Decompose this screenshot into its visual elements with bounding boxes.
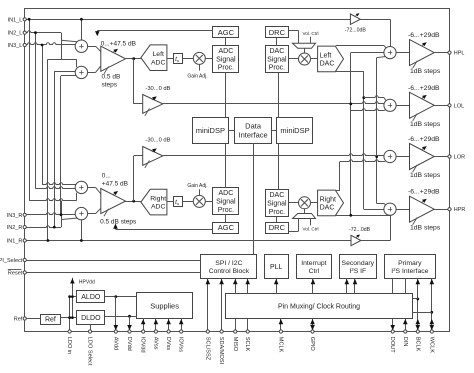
svg-text:Vol. Ctrl: Vol. Ctrl [302, 227, 318, 232]
svg-text:Left: Left [153, 51, 164, 58]
svg-text:SPI_Select: SPI_Select [0, 258, 23, 264]
svg-text:Data: Data [245, 122, 262, 131]
svg-text:SCL/SSZ: SCL/SSZ [204, 337, 210, 361]
svg-text:IN3_L: IN3_L [8, 43, 23, 49]
svg-text:LDO Select: LDO Select [87, 337, 93, 366]
svg-text:Interrupt: Interrupt [301, 260, 326, 267]
svg-text:DLDO: DLDO [81, 315, 101, 322]
svg-text:DAC: DAC [320, 60, 335, 67]
svg-text:Primary: Primary [398, 260, 422, 267]
svg-text:Ctrl: Ctrl [309, 268, 320, 275]
svg-text:Left: Left [320, 52, 332, 59]
svg-text:1dB steps: 1dB steps [410, 121, 441, 128]
svg-text:Proc.: Proc. [269, 65, 285, 72]
svg-text:+47.5 dB: +47.5 dB [102, 180, 128, 187]
svg-text:PLL: PLL [270, 264, 283, 271]
svg-text:HPL: HPL [454, 51, 465, 57]
svg-text:-30...0 dB: -30...0 dB [145, 138, 170, 144]
svg-text:DRC: DRC [269, 28, 286, 37]
svg-text:-6...+29dB: -6...+29dB [408, 32, 440, 39]
svg-text:Control Block: Control Block [209, 268, 250, 275]
svg-text:-72...0dB: -72...0dB [349, 227, 371, 233]
svg-text:ADC: ADC [151, 59, 165, 66]
svg-text:SPI / I2C: SPI / I2C [215, 260, 242, 267]
svg-text:AGC: AGC [218, 223, 235, 232]
svg-text:Right: Right [320, 196, 336, 203]
svg-text:tu: tu [175, 199, 179, 206]
svg-text:LOL: LOL [454, 103, 464, 109]
svg-text:IN2_L: IN2_L [8, 31, 23, 37]
svg-text:SCLK: SCLK [244, 337, 250, 352]
svg-text:Reset: Reset [8, 271, 23, 277]
svg-text:Interface: Interface [239, 130, 268, 139]
svg-text:steps: steps [102, 82, 118, 89]
svg-text:Pin Muxing/ Clock Routing: Pin Muxing/ Clock Routing [278, 303, 360, 310]
svg-text:Secondary: Secondary [342, 260, 375, 267]
svg-text:AVss: AVss [152, 337, 158, 350]
svg-text:AGC: AGC [218, 28, 235, 37]
svg-text:Signal: Signal [267, 56, 287, 63]
svg-text:Signal: Signal [267, 201, 287, 208]
svg-text:IOVdd: IOVdd [140, 337, 146, 353]
svg-text:IN3_R: IN3_R [7, 213, 23, 219]
svg-text:0...+47.5 dB: 0...+47.5 dB [101, 41, 136, 48]
svg-text:LOR: LOR [454, 155, 465, 161]
svg-text:HPVdd: HPVdd [79, 280, 95, 286]
svg-text:MCLK: MCLK [277, 337, 283, 353]
svg-text:IN1_R: IN1_R [7, 239, 23, 245]
svg-text:HPR: HPR [454, 207, 466, 213]
svg-text:0.5 dB steps: 0.5 dB steps [100, 219, 137, 226]
svg-text:DAC: DAC [270, 192, 285, 199]
svg-text:Signal: Signal [216, 56, 236, 63]
svg-text:DVdd: DVdd [126, 337, 132, 351]
svg-text:-6...+29dB: -6...+29dB [408, 136, 440, 143]
svg-text:Proc.: Proc. [269, 209, 285, 216]
svg-text:miniDSP: miniDSP [280, 126, 309, 135]
svg-text:tu: tu [175, 56, 179, 63]
svg-text:0...: 0... [102, 173, 111, 180]
svg-text:SDA/MOSI: SDA/MOSI [218, 337, 224, 365]
svg-text:ADC: ADC [219, 190, 234, 197]
svg-text:1dB steps: 1dB steps [410, 225, 441, 232]
svg-text:IOVss: IOVss [178, 337, 184, 352]
svg-text:GPIO: GPIO [309, 337, 315, 352]
svg-text:0.5 dB: 0.5 dB [102, 74, 121, 81]
svg-text:BCLK: BCLK [414, 337, 420, 352]
svg-text:I2S Interface: I2S Interface [391, 267, 428, 275]
svg-text:Signal: Signal [216, 199, 236, 206]
svg-text:IN1_L: IN1_L [8, 17, 23, 23]
svg-text:1dB steps: 1dB steps [410, 68, 441, 75]
svg-text:DOUT: DOUT [389, 337, 395, 353]
svg-text:-72...0dB: -72...0dB [345, 28, 367, 34]
svg-text:1dB steps: 1dB steps [410, 172, 441, 179]
svg-text:Ref: Ref [45, 317, 56, 324]
svg-text:DVss: DVss [165, 337, 171, 351]
svg-text:IN2_R: IN2_R [7, 225, 23, 231]
svg-text:Vol. Ctrl: Vol. Ctrl [302, 31, 318, 36]
svg-text:ADC: ADC [219, 48, 234, 55]
svg-text:WCLK: WCLK [428, 337, 434, 353]
svg-text:LDO in: LDO in [66, 337, 72, 354]
svg-text:ALDO: ALDO [81, 294, 101, 301]
svg-text:ADC: ADC [151, 204, 165, 211]
svg-text:Proc.: Proc. [218, 65, 234, 72]
svg-text:Gain Adj.: Gain Adj. [187, 183, 207, 189]
svg-text:-6...+29dB: -6...+29dB [408, 189, 440, 196]
svg-text:DRC: DRC [269, 223, 286, 232]
svg-text:Proc.: Proc. [218, 207, 234, 214]
svg-text:DAC: DAC [320, 204, 335, 211]
svg-text:MISO: MISO [232, 337, 238, 352]
svg-text:miniDSP: miniDSP [196, 126, 225, 135]
svg-text:-30...0 dB: -30...0 dB [145, 86, 170, 92]
svg-text:Supplies: Supplies [150, 301, 179, 310]
svg-text:Right: Right [150, 196, 166, 203]
svg-text:-6...+29dB: -6...+29dB [408, 85, 440, 92]
svg-text:DIN: DIN [402, 337, 408, 347]
svg-text:Gain Adj.: Gain Adj. [187, 74, 207, 80]
svg-text:AVdd: AVdd [112, 337, 118, 350]
svg-text:DAC: DAC [270, 48, 285, 55]
svg-text:Ref: Ref [14, 317, 23, 323]
